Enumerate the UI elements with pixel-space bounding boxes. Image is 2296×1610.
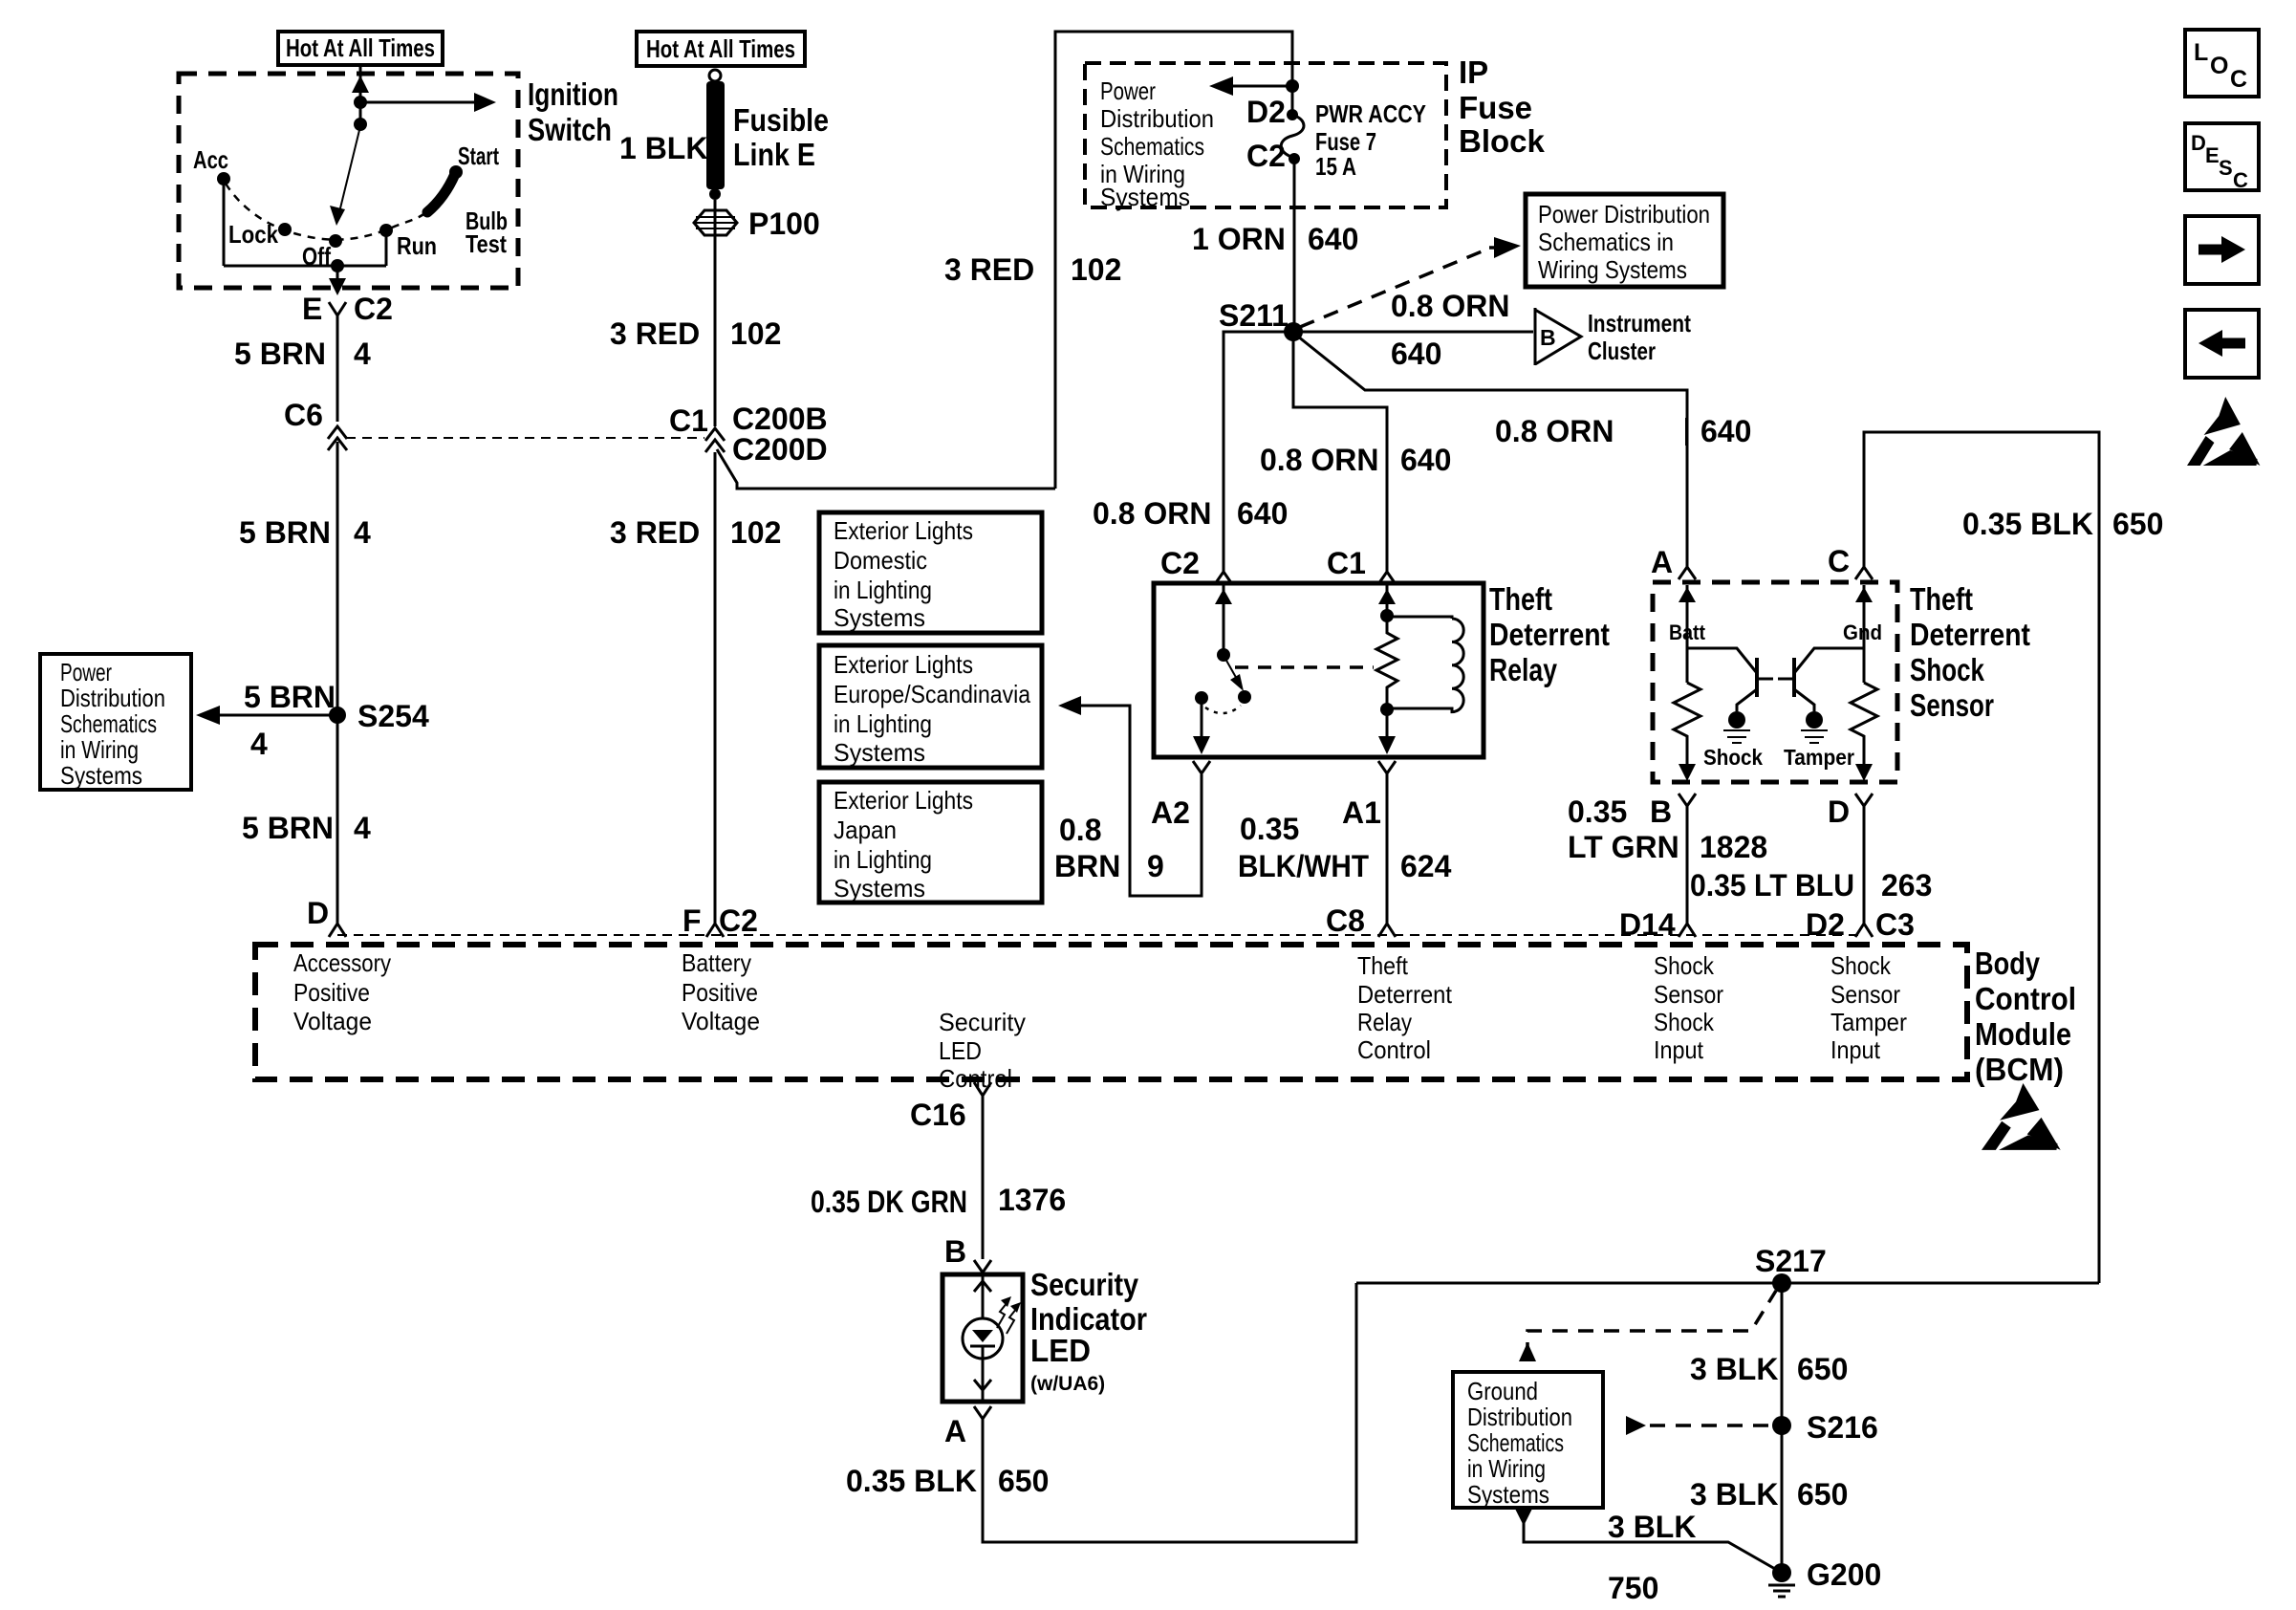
connector C6 [328,426,347,439]
esd sensitivity symbol at BCM [1982,1083,2061,1150]
node relay wiper pivot [1217,648,1230,662]
svg-text:Run: Run [397,231,437,260]
wire feed to wiper [359,102,362,124]
BCM pin D [329,924,346,937]
svg-text:Gnd: Gnd [1843,620,1882,644]
svg-text:Japan: Japan [834,816,897,844]
node output junction [331,259,344,272]
wire 5 BRN 4 segment 3 [336,715,339,924]
BCM shock sensor shock input text [1654,951,1723,1064]
wire 3 BLK 650 S217 to S216 [1781,1283,1784,1425]
svg-text:D14: D14 [1619,907,1676,942]
svg-text:0.35: 0.35 [1240,812,1299,846]
svg-text:Battery: Battery [682,948,751,977]
wire 0.35 DK GRN 1376 BCM C16 to LED [982,1096,985,1259]
svg-text:D: D [307,896,329,930]
svg-text:C8: C8 [1326,903,1365,938]
svg-text:Hot At All Times: Hot At All Times [646,34,795,63]
svg-text:Ignition: Ignition [528,76,618,112]
exterior lights europe reference box [819,645,1042,768]
fusible link E [706,70,725,200]
relay switch common [1223,585,1225,655]
svg-text:1 ORN: 1 ORN [1192,222,1286,256]
svg-text:Systems: Systems [1467,1480,1549,1509]
BCM connector dashed pin line [337,934,1864,936]
connector C200B C200D [705,428,725,441]
svg-text:in Wiring: in Wiring [1467,1454,1546,1483]
svg-text:D: D [1828,794,1850,829]
wire arrow to ignition switch label [360,101,479,104]
wire branch from C200 to fuse block feed [717,449,1055,489]
svg-text:0.35 BLK: 0.35 BLK [846,1464,977,1498]
switch wiper arm [339,126,360,212]
svg-text:Security: Security [1030,1267,1139,1302]
contact Start [449,165,463,179]
dashed reference arrow ground box to S216 [1626,1416,1772,1435]
wire ground bus S217 row [1356,1282,2099,1285]
relay pin A1 [1378,761,1396,773]
svg-text:640: 640 [1308,222,1358,256]
relay coil [1387,617,1463,712]
wire 5 BRN 4 segment 2 [336,442,339,715]
wire 3 RED 102 segment 1 [714,200,717,426]
dashed reference arrow ground box to S217 [1519,1291,1776,1361]
svg-text:C2: C2 [1246,139,1286,173]
fuse 7 PWR ACCY 15A element [1291,86,1294,113]
svg-text:Power: Power [1100,76,1156,105]
dashed reference arrow from S211 to power distribution box [1300,250,1486,327]
ignition switch title [528,76,618,147]
wire 3 RED 102 segment 2 [714,452,717,924]
svg-text:E: E [302,292,322,326]
LED anode lead [982,1274,985,1318]
shock sensor pin C [1855,567,1873,579]
body control module dashed box [255,945,1967,1079]
svg-text:F: F [682,903,702,938]
wire 0.35 BLK 650 shock sensor C up and right [1864,432,2099,1283]
svg-text:Systems: Systems [1100,183,1190,211]
wire 0.35 BLK 650 LED A to S217 [983,1283,1356,1542]
BCM pin C16 [974,1082,991,1096]
svg-text:Ground: Ground [1467,1377,1538,1405]
svg-text:5 BRN: 5 BRN [239,515,331,550]
svg-text:LED: LED [939,1036,982,1065]
transistor tamper [1778,648,1864,711]
svg-text:Shock: Shock [1654,951,1715,980]
wire from hot feed into ignition switch [359,65,362,102]
node S217 [1772,1273,1791,1293]
security indicator LED box [942,1274,1023,1402]
svg-text:Schematics: Schematics [1100,132,1204,161]
LED pin A [974,1406,991,1419]
svg-text:0.35 BLK: 0.35 BLK [1962,507,2093,541]
BCM title [1975,946,2076,1087]
svg-text:Test: Test [466,229,507,258]
svg-text:Schematics in: Schematics in [1538,228,1674,256]
svg-text:Exterior Lights: Exterior Lights [834,650,973,679]
svg-text:650: 650 [1797,1477,1848,1512]
svg-text:Voltage: Voltage [293,1007,372,1035]
svg-text:Relay: Relay [1357,1008,1412,1036]
wire arrow to power distribution [206,714,337,717]
node feed junction [354,96,367,109]
wire 0.35 BLK/WHT 624 relay A1 to BCM C8 [1386,773,1389,924]
security indicator LED title [1030,1267,1147,1395]
relay pin C2 [1215,572,1232,584]
svg-text:LED: LED [1030,1333,1091,1368]
shock sensor gnd input arrow [1863,585,1866,683]
start engage thick arc [427,174,455,212]
svg-text:Control: Control [939,1064,1012,1093]
ignition switch dashed box [179,74,518,288]
IP fuse block dashed box [1085,63,1446,207]
svg-text:Indicator: Indicator [1030,1301,1147,1337]
shock sensor pin B [1679,794,1696,806]
svg-text:4: 4 [354,337,371,371]
svg-text:S217: S217 [1755,1244,1827,1278]
svg-text:Instrument: Instrument [1588,309,1691,337]
theft deterrent shock sensor dashed box [1653,582,1897,782]
relay coil input from C1 [1386,585,1389,616]
svg-text:Switch: Switch [528,112,612,147]
power distribution schematics reference box (right) [1526,194,1723,287]
svg-text:0.8: 0.8 [1059,813,1101,847]
svg-text:Deterrent: Deterrent [1357,980,1453,1009]
svg-text:A1: A1 [1342,795,1381,830]
node coil bottom [1380,703,1394,716]
svg-text:Schematics: Schematics [1467,1428,1564,1457]
svg-text:102: 102 [730,515,781,550]
svg-text:Systems: Systems [834,738,925,767]
svg-text:0.35 DK GRN: 0.35 DK GRN [811,1185,967,1219]
svg-text:C2: C2 [1160,546,1200,580]
wire 0.8 ORN 640 S211 left down to relay C2 [1224,332,1293,572]
relay resistor [1376,616,1397,709]
svg-text:BLK/WHT: BLK/WHT [1238,849,1369,883]
contact Acc [217,172,230,185]
svg-text:Shock: Shock [1703,745,1763,770]
svg-text:3 RED: 3 RED [610,316,700,351]
svg-text:Exterior Lights: Exterior Lights [834,786,973,815]
wire 3 BLK 750 ground box to G200 [1515,1509,1782,1573]
power distribution reference text in fuse block [1100,76,1214,211]
svg-text:Cluster: Cluster [1588,337,1656,365]
svg-text:640: 640 [1391,337,1441,371]
svg-text:Theft: Theft [1910,581,1973,617]
svg-text:Sensor: Sensor [1830,980,1900,1009]
relay fixed contact [1195,691,1208,705]
node S254 [329,707,346,724]
instrument cluster connector triangle B [1535,308,1581,365]
arrow up at ignition feed [352,76,369,93]
svg-text:S: S [2219,156,2233,180]
svg-text:Positive: Positive [293,978,370,1007]
svg-text:Hot At All Times: Hot At All Times [286,33,435,62]
svg-text:102: 102 [1071,252,1121,287]
svg-text:Tamper: Tamper [1830,1008,1907,1036]
svg-text:263: 263 [1881,868,1932,903]
bulb test label [466,207,508,258]
LED pin B [974,1260,991,1273]
svg-text:4: 4 [354,811,371,845]
svg-text:Systems: Systems [834,874,925,903]
svg-text:Exterior Lights: Exterior Lights [834,516,973,545]
shock sensor right resistor [1851,683,1877,769]
svg-text:0.8 ORN: 0.8 ORN [1495,414,1614,448]
BCM accessory voltage text [293,948,391,1035]
svg-text:Theft: Theft [1489,581,1552,617]
wire Acc to output bus [223,184,226,266]
svg-text:5 BRN: 5 BRN [242,811,334,845]
icon DESC [2185,123,2259,192]
BCM theft deterrent relay control text [1357,951,1453,1064]
relay wiper arm [1225,659,1238,681]
svg-text:B: B [1540,325,1556,350]
node S211 [1284,322,1303,341]
svg-text:A2: A2 [1151,795,1190,830]
svg-text:1828: 1828 [1700,830,1767,864]
icon arrow left [2185,310,2259,378]
shock sensor pin D [1855,794,1873,806]
svg-text:in Wiring: in Wiring [60,735,139,764]
svg-text:Control: Control [1357,1035,1431,1064]
wire output bus [224,265,386,268]
svg-text:650: 650 [1797,1352,1848,1386]
svg-text:L: L [2194,39,2208,66]
grommet P100 [694,210,737,235]
svg-text:5 BRN: 5 BRN [244,680,336,714]
svg-text:Control: Control [1975,981,2076,1016]
shock sensor pin A [1679,567,1696,579]
hot-at-all-times label box 1 [278,32,443,65]
svg-text:Positive: Positive [682,978,758,1007]
contact Off [329,234,342,248]
svg-text:Fusible: Fusible [733,102,829,138]
svg-text:in Lighting: in Lighting [834,576,932,604]
svg-text:Accessory: Accessory [293,948,391,977]
svg-text:Distribution: Distribution [1100,104,1214,133]
relay pin C1 [1378,572,1396,584]
LED cathode lead [982,1346,985,1402]
svg-text:Systems: Systems [834,603,925,632]
wire 1 ORN 640 from fuse to S211 [1293,159,1296,332]
svg-text:Deterrent: Deterrent [1489,617,1610,652]
relay contact throw dotted arc [1205,706,1241,713]
svg-text:4: 4 [250,727,268,761]
svg-text:1 BLK: 1 BLK [619,131,707,165]
svg-text:0.8 ORN: 0.8 ORN [1260,443,1378,477]
relay title [1489,581,1610,687]
wire 0.8 ORN 640 S211 to shock sensor A [1298,337,1687,567]
svg-text:3 RED: 3 RED [610,515,700,550]
svg-text:C200D: C200D [732,432,828,467]
svg-text:3 BLK: 3 BLK [1608,1510,1696,1544]
svg-text:Link E: Link E [733,137,815,172]
svg-text:Deterrent: Deterrent [1910,617,2030,652]
svg-text:3 RED: 3 RED [944,252,1034,287]
power distribution schematics reference box (left) [40,654,191,790]
wire 0.8 ORN 640 S211 down to relay C1 [1293,332,1387,572]
BCM security led control text [939,1008,1026,1093]
svg-text:D2: D2 [1806,907,1845,942]
svg-text:3 BLK: 3 BLK [1690,1477,1778,1512]
svg-text:Module: Module [1975,1016,2071,1052]
node relay moving contact [1238,690,1251,704]
svg-text:Body: Body [1975,946,2041,981]
svg-text:C1: C1 [669,403,708,438]
hot-at-all-times label box 2 [637,32,805,66]
svg-text:624: 624 [1400,849,1452,883]
wire 0.8 ORN 640 S211 to instrument cluster [1293,331,1533,334]
svg-text:C: C [2230,66,2247,93]
svg-text:B: B [944,1234,966,1269]
svg-text:Security: Security [939,1008,1026,1036]
svg-text:C: C [2233,168,2248,192]
svg-text:S216: S216 [1807,1410,1878,1445]
svg-text:C3: C3 [1875,907,1915,942]
icon LOC [2185,30,2259,97]
wire 3 RED 102 riser to hot feed [1055,32,1292,489]
node coil top [1380,609,1394,622]
ground at tamper element [1801,730,1828,743]
LED symbol [963,1318,1003,1359]
relay actuate dashed line [1235,665,1374,669]
icon arrow right [2185,216,2259,284]
svg-text:102: 102 [730,316,781,351]
svg-text:in Lighting: in Lighting [834,709,932,738]
svg-text:640: 640 [1700,414,1751,448]
svg-text:(w/UA6): (w/UA6) [1030,1373,1105,1395]
BCM pin D2 [1855,924,1873,937]
exterior lights japan reference box [819,782,1042,903]
wire 0.35 LT GRN 1828 to BCM D14 [1686,806,1689,924]
svg-text:Power Distribution: Power Distribution [1538,200,1710,228]
IP fuse block title [1459,54,1546,159]
svg-text:S254: S254 [357,699,429,733]
svg-text:IP: IP [1459,54,1488,90]
svg-text:Theft: Theft [1357,951,1409,980]
pin E connector C2 [329,302,346,315]
ground at shock element [1723,730,1750,743]
svg-text:C6: C6 [284,398,323,432]
svg-text:Voltage: Voltage [682,1007,760,1035]
svg-text:C: C [1828,544,1850,578]
svg-text:S211: S211 [1219,298,1289,333]
svg-text:Input: Input [1830,1035,1881,1064]
svg-text:Tamper: Tamper [1784,745,1854,770]
relay output to A2 [1201,704,1203,741]
wire 0.35 LT BLU 263 to BCM D2 [1863,806,1866,924]
svg-text:0.8 ORN: 0.8 ORN [1093,496,1211,531]
svg-text:0.35: 0.35 [1568,794,1627,829]
svg-text:Block: Block [1459,123,1546,159]
svg-text:Acc: Acc [193,145,228,174]
BCM pin F [706,924,724,937]
svg-text:Europe/Scandinavia: Europe/Scandinavia [834,680,1030,708]
ground distribution schematics reference box [1453,1372,1603,1509]
svg-text:Distribution: Distribution [60,684,165,712]
relay pin A2 [1193,761,1210,773]
svg-text:E: E [2205,143,2220,167]
svg-text:Batt: Batt [1669,620,1706,644]
transistor shock [1687,648,1773,711]
svg-text:5 BRN: 5 BRN [234,337,326,371]
wire Run to output bus [385,236,388,266]
svg-text:650: 650 [2112,507,2163,541]
contact Lock [278,223,292,236]
svg-text:3 BLK: 3 BLK [1690,1352,1778,1386]
shock sensor left resistor [1674,683,1700,769]
instrument cluster label [1588,309,1691,365]
svg-text:Start: Start [458,141,499,170]
svg-text:0.8 ORN: 0.8 ORN [1391,289,1509,323]
svg-text:Power: Power [60,658,112,686]
BCM pin D14 [1679,924,1696,937]
svg-text:9: 9 [1147,849,1164,883]
svg-text:640: 640 [1237,496,1288,531]
BCM shock sensor tamper input text [1830,951,1907,1064]
wire arrow left inside fuse block [1224,85,1292,88]
svg-text:Shock: Shock [1830,951,1892,980]
svg-text:G200: G200 [1807,1557,1881,1592]
svg-text:(BCM): (BCM) [1975,1052,2064,1087]
svg-text:C1: C1 [1327,546,1366,580]
connector dashed link C6 to C200 [346,437,704,439]
svg-text:Sensor: Sensor [1654,980,1723,1009]
wire output arrow down [336,266,339,284]
wire 0.8 BRN 9 relay A2 to europe lights [1072,706,1202,896]
svg-text:P100: P100 [748,207,820,241]
svg-text:Schematics: Schematics [60,709,157,738]
svg-text:15 A: 15 A [1315,152,1356,181]
svg-text:Wiring Systems: Wiring Systems [1538,255,1687,284]
svg-text:Input: Input [1654,1035,1704,1064]
exterior lights domestic reference box [819,512,1042,633]
svg-text:Shock: Shock [1654,1008,1715,1036]
shock sensing element [1728,711,1745,729]
svg-text:640: 640 [1400,443,1451,477]
svg-text:0.35 LT BLU: 0.35 LT BLU [1690,868,1854,903]
svg-text:C200B: C200B [732,402,828,436]
node fuse feed junction [1286,79,1299,93]
svg-text:PWR ACCY: PWR ACCY [1315,99,1426,128]
svg-text:LT GRN: LT GRN [1568,830,1679,864]
svg-text:Distribution: Distribution [1467,1403,1572,1431]
svg-text:4: 4 [354,515,371,550]
shock sensor title [1910,581,2030,723]
svg-text:B: B [1650,794,1672,829]
svg-text:A: A [1651,545,1673,579]
wire 5 BRN 4 segment 1 [336,315,339,422]
shock sensor batt input arrow [1686,585,1689,683]
svg-text:C16: C16 [910,1098,966,1132]
BCM battery voltage text [682,948,760,1035]
svg-text:D: D [2191,131,2206,155]
node S216 [1772,1416,1791,1435]
svg-text:BRN: BRN [1054,849,1120,883]
svg-text:Sensor: Sensor [1910,687,1994,723]
svg-text:650: 650 [998,1464,1049,1498]
BCM pin C8 [1378,924,1396,937]
svg-text:Shock: Shock [1910,652,1984,687]
tamper sensing element [1806,711,1823,729]
svg-text:C2: C2 [719,903,758,938]
contact Run [379,224,393,237]
svg-text:Systems: Systems [60,761,142,790]
svg-text:in Lighting: in Lighting [834,845,932,874]
svg-text:Fuse: Fuse [1459,90,1532,125]
wire 3 BLK 650 S216 to G200 [1781,1425,1784,1573]
